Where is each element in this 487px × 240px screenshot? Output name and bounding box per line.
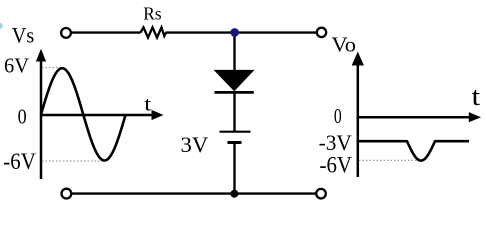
svg-text:t: t — [472, 82, 482, 111]
svg-text:t: t — [144, 93, 152, 115]
svg-text:Vs: Vs — [12, 23, 35, 48]
svg-text:3V: 3V — [181, 132, 209, 157]
svg-text:-6V: -6V — [3, 149, 36, 174]
svg-text:6V: 6V — [4, 53, 29, 77]
svg-text:0: 0 — [334, 104, 342, 128]
svg-text:Vo: Vo — [332, 33, 357, 57]
svg-text:Rs: Rs — [143, 4, 161, 24]
svg-text:-3V: -3V — [319, 130, 352, 155]
svg-text:-6V: -6V — [320, 153, 353, 178]
svg-text:0: 0 — [18, 104, 27, 128]
